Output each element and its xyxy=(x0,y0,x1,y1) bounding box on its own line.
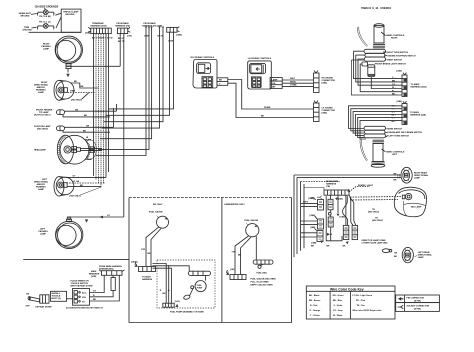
svg-text:[30B]: [30B] xyxy=(310,215,316,217)
svg-text:LH CRUISE CONTROLS: LH CRUISE CONTROLS xyxy=(248,58,272,60)
svg-text:LAMP: LAMP xyxy=(272,79,279,82)
lamp headlamp xyxy=(57,135,89,164)
svg-text:[141]: [141] xyxy=(230,268,235,271)
svg-text:BK - Black: BK - Black xyxy=(309,295,320,297)
svg-text:BK: BK xyxy=(327,245,331,247)
svg-text:BN - Brown: BN - Brown xyxy=(309,299,321,302)
wire pump B xyxy=(153,266,190,271)
wire feeds left col 2 xyxy=(301,221,318,224)
legend pin connector box xyxy=(396,295,440,303)
ignition key switch box xyxy=(73,289,90,306)
svg-text:(HDI ONLY): (HDI ONLY) xyxy=(368,212,379,214)
wire spare light dashed xyxy=(349,187,370,193)
wire fender tip 1 xyxy=(65,110,117,112)
connector dome lamp oval xyxy=(382,249,390,253)
svg-text:GY - Gray: GY - Gray xyxy=(333,309,343,312)
wire drops group2 xyxy=(102,29,160,128)
svg-text:[14B]: [14B] xyxy=(340,216,346,219)
svg-text:ENGINE STOP/RUN SWITCH: ENGINE STOP/RUN SWITCH xyxy=(388,55,417,57)
wire arrow into passing lamp xyxy=(85,219,88,222)
svg-text:BK O GN BE V GY W: BK O GN BE V GY W xyxy=(92,38,112,40)
wire carb sender drop xyxy=(255,235,257,260)
svg-text:FUEL GAUGE: FUEL GAUGE xyxy=(149,211,163,214)
lamp right directional xyxy=(54,80,74,100)
svg-text:BK: BK xyxy=(80,185,84,187)
arrow into 18B xyxy=(327,233,330,236)
connector cruise lower 39B xyxy=(314,101,320,122)
connector EFI 141B xyxy=(131,261,156,272)
svg-text:LAMP: LAMP xyxy=(38,91,45,94)
lamp right rear directional xyxy=(401,167,412,183)
cruise control module right (LH) xyxy=(248,58,272,89)
ground arrow left 2 xyxy=(37,27,38,31)
lamp left directional xyxy=(54,177,74,196)
svg-text:[91B]: [91B] xyxy=(91,276,97,278)
svg-text:PN-71-C (J): PN-71-C (J) xyxy=(39,21,51,23)
gauge fuel carb xyxy=(244,219,259,237)
wire arrow down to directional xyxy=(67,69,69,73)
chassis ground baseline wire xyxy=(29,31,81,33)
svg-text:FRONT BRAKE LIGHT SWITCH: FRONT BRAKE LIGHT SWITCH xyxy=(375,62,406,65)
svg-text:(FLHTC/U ONLY): (FLHTC/U ONLY) xyxy=(34,115,51,117)
svg-text:FUEL PUMP ASSEMBLY / IN TANK: FUEL PUMP ASSEMBLY / IN TANK xyxy=(170,311,204,314)
cruise control module left (RH) xyxy=(191,57,218,88)
svg-text:LEFT: LEFT xyxy=(392,154,398,156)
svg-text:Y - Yellow: Y - Yellow xyxy=(310,315,320,317)
connector TRIM/REAR HARNESS 31B xyxy=(85,22,111,35)
svg-text:BE - Blue: BE - Blue xyxy=(333,300,343,302)
wire dashed pair to tail lamp xyxy=(350,196,402,199)
svg-text:FULL 30-34 OHMS: FULL 30-34 OHMS xyxy=(251,281,270,284)
svg-text:LAMP: LAMP xyxy=(43,48,50,51)
svg-text:GN/V: GN/V xyxy=(303,202,309,204)
svg-text:Wire Color Code Key: Wire Color Code Key xyxy=(330,287,364,291)
svg-text:(HDI ONLY): (HDI ONLY) xyxy=(71,100,82,102)
svg-text:BEAM: BEAM xyxy=(86,158,92,161)
wire 7B pins down xyxy=(331,195,346,241)
switch housing left xyxy=(364,126,386,137)
svg-text:[141B]: [141B] xyxy=(131,261,138,264)
wire fuel gauge EFI drops xyxy=(146,227,159,267)
svg-text:HARNESS (31B): HARNESS (31B) xyxy=(91,25,107,28)
svg-text:BK: BK xyxy=(343,245,347,247)
svg-text:O BK: O BK xyxy=(168,41,174,43)
svg-text:LT GN - Light Green: LT GN - Light Green xyxy=(353,294,373,297)
wire to right rear lamp 1 xyxy=(294,174,401,176)
svg-text:BOOT (2): BOOT (2) xyxy=(52,298,61,300)
svg-text:RH CRUISE CONTROLS: RH CRUISE CONTROLS xyxy=(191,57,215,59)
svg-text:[67B/94B (SE)]: [67B/94B (SE)] xyxy=(99,267,114,270)
svg-text:BK: BK xyxy=(148,253,152,255)
svg-text:EMPTY 240-260 OHMS: EMPTY 240-260 OHMS xyxy=(251,284,274,287)
label 6B with arrow xyxy=(335,197,338,200)
junction circle xyxy=(328,212,331,215)
svg-text:GN - Green: GN - Green xyxy=(333,294,345,297)
svg-text:ACCESSORY/IGNITION KEY SWITCH: ACCESSORY/IGNITION KEY SWITCH xyxy=(66,307,103,310)
wire position lamp 2 xyxy=(63,131,110,133)
connector single pins group 2 xyxy=(157,26,164,38)
svg-text:[39B]: [39B] xyxy=(322,113,328,115)
svg-text:[96B]: [96B] xyxy=(177,35,183,37)
connector block left col 3 xyxy=(310,227,323,242)
wire left directional top xyxy=(66,176,106,178)
svg-text:GN: GN xyxy=(394,252,398,254)
svg-text:PK - Pink: PK - Pink xyxy=(356,300,366,302)
leader wire headlight ground xyxy=(31,14,37,15)
wire RH cruise to connector 39B xyxy=(228,80,314,110)
svg-text:HARNESS (22A): HARNESS (22A) xyxy=(411,86,427,89)
svg-text:W - White: W - White xyxy=(333,314,343,317)
connector 3-cell top (96B) xyxy=(167,27,182,37)
svg-text:IGN: IGN xyxy=(82,297,86,299)
svg-text:BK: BK xyxy=(238,254,242,256)
wire LH cruise to connector 33B xyxy=(282,80,313,86)
svg-text:LT GN: LT GN xyxy=(73,181,80,183)
fuel level sender bar EFI xyxy=(188,271,210,275)
lamp left rear directional xyxy=(402,247,413,262)
leader wire triple clamp to ground 1 xyxy=(55,13,61,15)
hand controls right grip xyxy=(357,24,385,48)
wire feeds left col 3 xyxy=(301,233,317,237)
svg-text:BK: BK xyxy=(394,256,398,258)
svg-text:HORN SWITCH: HORN SWITCH xyxy=(387,128,402,130)
connector FROM MAIN HARNESS 7B xyxy=(115,22,132,38)
arrow junction right xyxy=(346,241,349,244)
svg-text:GROUND: GROUND xyxy=(65,14,75,16)
svg-text:BEAM: BEAM xyxy=(85,139,91,142)
svg-text:70996-01_E_4A 6/19/2001: 70996-01_E_4A 6/19/2001 xyxy=(361,7,392,10)
svg-text:[33B]: [33B] xyxy=(322,83,328,85)
wire right directional BK xyxy=(71,83,99,88)
svg-text:HARNESS: HARNESS xyxy=(142,278,153,281)
svg-text:ACC: ACC xyxy=(82,291,87,294)
svg-text:WITH KEYWAY DOWN: WITH KEYWAY DOWN xyxy=(71,285,93,288)
connector headlamp boot xyxy=(87,140,97,160)
fuel level sender carb xyxy=(253,260,273,275)
svg-text:Y/W: Y/W xyxy=(232,251,236,253)
svg-text:RIGHT TURN SWITCH: RIGHT TURN SWITCH xyxy=(387,52,409,54)
lamp left passing xyxy=(55,221,82,248)
connector right passing lamp terminals xyxy=(66,64,71,66)
connector single pins FROM MAIN HARNESS (group 1) xyxy=(142,22,157,38)
wire right controls bundle xyxy=(354,51,402,78)
switch housing right xyxy=(362,49,386,76)
svg-text:BK –: BK – xyxy=(392,121,398,123)
svg-text:(HDI ONLY): (HDI ONLY) xyxy=(70,195,81,197)
wire pump C xyxy=(153,268,172,303)
connector 24B xyxy=(397,100,408,125)
hand controls left grip xyxy=(360,139,385,167)
gauge fuel EFI xyxy=(149,211,169,229)
svg-text:SPARE / LIGHT: SPARE / LIGHT xyxy=(358,184,374,187)
svg-text:PUMP: PUMP xyxy=(197,287,203,289)
fuel pump assembly dashed box xyxy=(157,260,215,308)
svg-text:LAMP: LAMP xyxy=(418,256,425,259)
svg-text:(HDI ONLY): (HDI ONLY) xyxy=(372,220,383,222)
wire bar to pump xyxy=(205,275,207,280)
ground arrow right 2 xyxy=(53,27,54,31)
svg-text:[X P/N]: [X P/N] xyxy=(414,300,421,302)
leader wire trim ground xyxy=(32,26,37,29)
float arm EFI xyxy=(183,294,190,300)
wire left directional striped xyxy=(67,182,105,184)
svg-text:[22B]: [22B] xyxy=(397,71,403,73)
svg-text:RIGHT: RIGHT xyxy=(391,38,398,40)
lamp front fender tip xyxy=(57,110,65,115)
svg-text:CHASSIS GROUNDS: CHASSIS GROUNDS xyxy=(35,5,59,8)
wire vertical risers left of 7B xyxy=(294,175,304,257)
svg-text:TN - Tan: TN - Tan xyxy=(357,305,366,307)
svg-text:FUEL GAUGE: FUEL GAUGE xyxy=(244,219,258,222)
svg-text:O - Orange: O - Orange xyxy=(310,309,322,312)
svg-text:KEYWAY DOWN: KEYWAY DOWN xyxy=(36,305,52,308)
wire pump A xyxy=(153,264,167,304)
svg-text:(7B): (7B) xyxy=(326,186,330,188)
svg-text:PIN CONNECTOR: PIN CONNECTOR xyxy=(407,297,425,299)
svg-text:FUEL (SE): FUEL (SE) xyxy=(257,273,267,275)
ground circle 1 xyxy=(43,10,48,15)
svg-text:SOCKET CONNECTOR: SOCKET CONNECTOR xyxy=(407,305,430,307)
connector 22B xyxy=(397,71,408,97)
wire 7B pin1 down to passing lamp feed xyxy=(119,34,121,67)
svg-text:BK: BK xyxy=(261,116,265,118)
wire 7B pin2 down to left passing feed xyxy=(123,34,125,217)
svg-text:[31B]: [31B] xyxy=(85,33,91,35)
boxed note toggle xyxy=(51,291,67,301)
wire left passing to harness xyxy=(69,217,124,219)
wire fender tip 2 xyxy=(63,114,110,117)
svg-text:V - Violet: V - Violet xyxy=(334,304,343,307)
svg-text:Wire color XX/XX Stripe color: Wire color XX/XX Stripe color xyxy=(353,309,382,312)
wire trim harness bundle xyxy=(94,34,109,187)
svg-text:Y/W: Y/W xyxy=(141,249,145,251)
connector block inner 1 xyxy=(328,199,333,210)
arrow mid harness down xyxy=(337,214,340,217)
svg-text:BK: BK xyxy=(219,80,223,82)
svg-text:BK: BK xyxy=(394,179,398,181)
svg-text:HARNESS (24A): HARNESS (24A) xyxy=(410,114,426,117)
wire headlamp pair xyxy=(80,149,102,151)
svg-text:GN: GN xyxy=(75,109,79,111)
svg-text:HEADLAMP HI/LO BEAM SWITCH: HEADLAMP HI/LO BEAM SWITCH xyxy=(389,131,423,134)
fuel pump motor EFI xyxy=(195,281,206,292)
svg-text:GY –: GY – xyxy=(392,84,398,86)
svg-text:BK R: BK R xyxy=(158,36,164,38)
svg-text:BK: BK xyxy=(163,293,167,295)
svg-text:BK: BK xyxy=(74,81,78,83)
harness enclosure outline xyxy=(326,196,347,241)
svg-text:LAMP: LAMP xyxy=(414,177,421,180)
svg-text:[6B]: [6B] xyxy=(339,199,343,201)
ground arrow left 1 xyxy=(37,13,38,17)
connector left passing terminals xyxy=(67,219,72,221)
triple clamp ground box xyxy=(61,9,81,32)
svg-text:EFI ONLY: EFI ONLY xyxy=(153,204,163,206)
svg-text:[7B]: [7B] xyxy=(128,36,132,38)
connector block left col 1 xyxy=(309,197,324,210)
svg-text:LAMP: LAMP xyxy=(38,188,45,191)
svg-text:R - Red: R - Red xyxy=(310,305,318,307)
connector RH cruise 2-cell xyxy=(217,78,228,86)
connector LH cruise 3-cell xyxy=(270,78,282,89)
svg-text:GROUND: GROUND xyxy=(23,29,33,31)
svg-text:BK: BK xyxy=(84,115,88,117)
svg-text:GROUND: GROUND xyxy=(20,16,30,18)
connector fuel pump bottom xyxy=(163,303,179,307)
svg-text:R: R xyxy=(160,290,162,292)
svg-text:COVER PLATE LAMP (SE): COVER PLATE LAMP (SE) xyxy=(362,242,388,245)
wire passing lamp to 7B xyxy=(71,65,120,67)
svg-text:LEFT TURN SWITCH: LEFT TURN SWITCH xyxy=(389,135,410,137)
svg-text:PN-71-B (B): PN-71-B (B) xyxy=(39,16,51,18)
wire left controls bundle xyxy=(349,106,403,129)
wire right directional striped (dashed) xyxy=(68,92,95,94)
tail lamp xyxy=(394,187,426,217)
svg-text:[X P/N]: [X P/N] xyxy=(414,308,421,310)
svg-text:VOL: VOL xyxy=(272,83,277,85)
divider line lower-left section xyxy=(23,259,129,261)
wire feeds left col 1 xyxy=(301,203,318,206)
connector ignition harness xyxy=(99,270,125,276)
toggle switch lever xyxy=(26,294,50,308)
fuel section outer box xyxy=(129,197,292,199)
svg-text:[24B]: [24B] xyxy=(397,100,403,103)
main breaker xyxy=(89,270,115,291)
svg-text:[141]: [141] xyxy=(175,300,180,303)
svg-text:BK: BK xyxy=(93,299,97,301)
wire drops group1 xyxy=(96,29,146,156)
ground circle 2 xyxy=(43,24,48,29)
wire 7B rear feeds xyxy=(304,188,324,191)
svg-text:(HDI ONLY): (HDI ONLY) xyxy=(37,128,48,130)
svg-text:ON: ON xyxy=(26,294,30,296)
svg-text:TAIL LAMP: TAIL LAMP xyxy=(411,206,423,209)
wire pump B branch xyxy=(168,266,170,303)
svg-text:[19B]: [19B] xyxy=(311,243,317,245)
svg-text:CARBURETED ONLY: CARBURETED ONLY xyxy=(224,203,245,206)
svg-text:HEADLAMP: HEADLAMP xyxy=(34,149,46,152)
connector cruise upper 33B xyxy=(314,71,320,93)
wire drops 96B xyxy=(106,32,170,115)
connector 19B 3-cell left xyxy=(343,225,349,239)
connector FROM MAIN HARNESS 7B rear xyxy=(311,180,350,200)
svg-text:ST: ST xyxy=(82,301,85,303)
svg-text:GN: GN xyxy=(86,126,90,128)
lamp position (HDI) xyxy=(57,126,65,131)
svg-text:GN/T: GN/T xyxy=(290,78,296,80)
svg-text:BK –: BK – xyxy=(392,94,398,96)
svg-text:START SWITCH: START SWITCH xyxy=(387,58,403,61)
svg-text:FUEL GAUGE (SE) OHMS: FUEL GAUGE (SE) OHMS xyxy=(251,278,277,281)
connector block left col 2 xyxy=(310,215,324,229)
wire toggle to switch box xyxy=(67,298,73,300)
svg-text:BK: BK xyxy=(83,130,87,132)
wire ignition drops xyxy=(90,275,105,292)
svg-text:OFF: OFF xyxy=(26,306,31,308)
connector 19A 3-cell right xyxy=(311,225,358,244)
wire position lamp 1 xyxy=(65,126,114,128)
svg-text:[24B]: [24B] xyxy=(309,197,315,200)
wire fuel gauge carb drops xyxy=(235,236,249,275)
svg-text:LAMP: LAMP xyxy=(40,233,47,236)
wire to right rear lamp 2 xyxy=(297,176,401,178)
svg-text:HARNESS (7B): HARNESS (7B) xyxy=(115,25,130,28)
leader wire triple clamp to ground 2 xyxy=(56,17,61,28)
ground arrow right 1 xyxy=(53,13,54,17)
legend socket connector box xyxy=(396,303,440,312)
svg-text:W/GN: W/GN xyxy=(290,81,296,83)
connector block inner 2 xyxy=(328,217,333,227)
svg-text:V/BN: V/BN xyxy=(70,91,75,93)
svg-text:BN –: BN – xyxy=(392,81,398,83)
junction dot pump xyxy=(168,290,170,292)
connector carb 141A xyxy=(226,268,246,280)
wire bundle extras right xyxy=(114,104,117,127)
svg-text:BK: BK xyxy=(311,245,315,247)
lamp right passing lamp xyxy=(55,36,82,63)
wire left directional third xyxy=(67,186,101,188)
svg-text:PK/BE: PK/BE xyxy=(264,107,271,109)
fuel section divider xyxy=(221,198,223,323)
arrow junction left xyxy=(321,240,324,243)
legend wire color code key table xyxy=(306,286,395,319)
svg-text:GY/BE: GY/BE xyxy=(290,85,297,87)
